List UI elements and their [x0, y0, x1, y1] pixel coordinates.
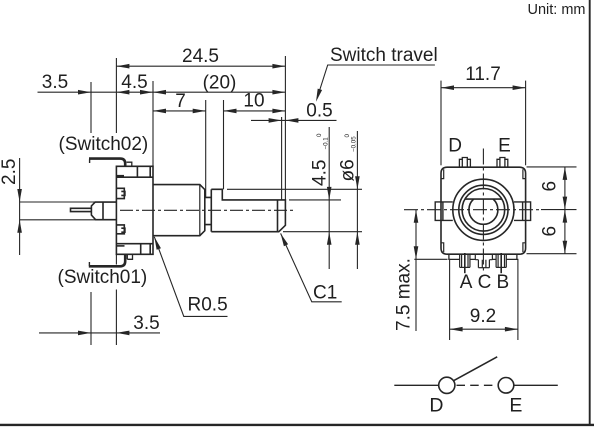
dimension 11.7: [441, 64, 526, 90]
dimension row 3.5 / 4.5 / (20): [38, 72, 286, 94]
svg-text:0.5: 0.5: [306, 101, 332, 122]
front view circles: [453, 179, 514, 240]
side view body: [116, 166, 153, 254]
svg-text:R0.5: R0.5: [188, 295, 228, 316]
dimension 4.5 shaft flat: [310, 127, 332, 269]
side body left tab upper: [116, 188, 125, 198]
terminal B: [496, 253, 506, 273]
switch schematic labels: [429, 395, 522, 417]
dimension 7.5 max: [394, 210, 419, 331]
svg-text:0: 0: [316, 133, 323, 137]
svg-text:(Switch02): (Switch02): [59, 134, 149, 155]
svg-text:A: A: [460, 272, 473, 293]
leader switch travel: [316, 45, 438, 102]
dimension 0.5: [251, 101, 337, 123]
dimension 10: [224, 91, 286, 114]
switch schematic wire right: [514, 384, 558, 386]
switch02 wire: [89, 159, 132, 167]
svg-text:3.5: 3.5: [133, 313, 159, 334]
front left tab: [435, 202, 453, 221]
dimension 6 upper: [540, 167, 568, 254]
svg-text:(Switch01): (Switch01): [58, 267, 148, 288]
svg-text:7: 7: [175, 91, 186, 112]
terminal labels A C B: [460, 272, 509, 293]
extension lines side view: [20, 56, 362, 345]
dimension 2.5: [0, 158, 22, 255]
front view extension lines: [414, 81, 576, 340]
svg-text:6: 6: [540, 226, 561, 237]
svg-text:3.5: 3.5: [42, 72, 68, 93]
dimension 9.2: [450, 306, 518, 332]
svg-text:E: E: [509, 395, 522, 417]
svg-text:2.5: 2.5: [0, 159, 20, 185]
switch schematic wire left: [394, 384, 438, 386]
svg-text:Unit: mm: Unit: mm: [528, 2, 586, 18]
switch schematic contact D: [439, 377, 455, 393]
svg-text:D: D: [448, 136, 462, 157]
leader R0.5: [154, 237, 227, 317]
front right tab: [514, 202, 531, 221]
terminal A: [460, 253, 470, 273]
front view body: [441, 167, 526, 254]
svg-text:E: E: [498, 136, 511, 157]
frame border bottom: [0, 424, 594, 426]
svg-text:24.5: 24.5: [182, 46, 219, 67]
leader C1: [281, 233, 342, 303]
svg-text:B: B: [497, 272, 510, 293]
dimension dia 6 shaft: [338, 131, 360, 269]
shaft side view: [211, 189, 285, 231]
svg-text:Switch travel: Switch travel: [330, 45, 438, 66]
svg-text:(20): (20): [203, 73, 237, 94]
svg-text:9.2: 9.2: [470, 306, 496, 327]
terminal labels D E top: [448, 136, 510, 157]
svg-text:C: C: [478, 272, 492, 293]
switch02 label: [59, 134, 149, 155]
unit note: [528, 2, 586, 18]
svg-text:C1: C1: [313, 283, 337, 304]
terminal C: [475, 254, 492, 267]
svg-text:4.5: 4.5: [310, 160, 331, 186]
svg-text:7.5 max.: 7.5 max.: [394, 258, 415, 331]
switch schematic dashed link: [457, 384, 498, 386]
terminal lug side view: [71, 202, 117, 220]
switch01 label: [58, 267, 148, 288]
front frame bottom: [449, 254, 517, 259]
dimension 7: [153, 91, 206, 113]
dimension 6 lower: [540, 210, 568, 254]
side body left tab lower: [116, 225, 125, 234]
svg-text:D: D: [429, 395, 443, 417]
svg-text:−0.1: −0.1: [323, 137, 330, 150]
dimension 3.5 bottom: [39, 313, 160, 335]
svg-text:4.5: 4.5: [121, 72, 147, 93]
switch schematic contact E: [498, 378, 514, 394]
svg-text:6: 6: [540, 181, 561, 192]
front view centerlines: [404, 149, 541, 274]
front body corner steps: [441, 169, 526, 252]
switch01 wire: [89, 254, 133, 266]
switch schematic lever: [454, 357, 498, 381]
terminal D pip: [459, 158, 470, 167]
shaft neck: [205, 197, 212, 224]
centerline side view: [120, 209, 296, 211]
frame border right: [589, 0, 591, 424]
dimension 24.5: [116, 46, 285, 69]
bushing boss side view: [153, 185, 205, 236]
svg-text:−0.05: −0.05: [351, 136, 358, 152]
svg-text:11.7: 11.7: [465, 64, 501, 85]
svg-text:10: 10: [243, 91, 264, 112]
terminal E pip: [497, 158, 508, 167]
svg-text:ø6: ø6: [338, 159, 359, 181]
